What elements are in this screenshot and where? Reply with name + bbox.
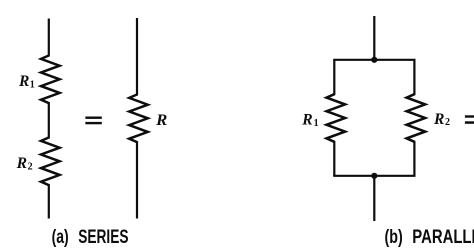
resistor R2 (series) — [41, 138, 60, 186]
resistor R2 (parallel) — [407, 94, 426, 142]
label R2 (parallel) — [433, 111, 450, 128]
wire parallel top lead — [373, 16, 375, 60]
svg-text:1: 1 — [30, 80, 35, 91]
node junction top — [371, 57, 377, 63]
label R1 (parallel) — [301, 111, 318, 129]
caption (a) SERIES — [52, 227, 129, 248]
svg-text:2: 2 — [28, 161, 33, 172]
svg-text:2: 2 — [445, 117, 450, 128]
resistor R1 (parallel) — [327, 94, 346, 142]
svg-text:SERIES: SERIES — [78, 227, 128, 248]
wire series bottom lead — [48, 184, 50, 219]
caption (b) PARALLEL — [385, 227, 474, 248]
svg-text:R: R — [301, 111, 313, 128]
label R2 (series) — [16, 155, 33, 173]
svg-text:PARALLEL: PARALLEL — [412, 227, 474, 248]
wire right branch lower — [413, 141, 415, 176]
wire left branch lower — [333, 141, 335, 176]
svg-text:R: R — [16, 155, 28, 172]
node junction bottom — [371, 173, 377, 179]
wire series top lead — [48, 19, 50, 57]
svg-text:(a): (a) — [52, 227, 69, 248]
wire left branch upper — [333, 60, 335, 95]
wire equivalent resistor top lead — [136, 18, 138, 96]
label R1 (series) — [18, 73, 35, 91]
wire parallel bottom lead — [373, 176, 375, 221]
svg-text:R: R — [155, 112, 168, 129]
equals sign (a) — [85, 117, 101, 125]
svg-text:(b): (b) — [385, 227, 403, 248]
wire bottom bus — [334, 175, 414, 177]
svg-text:R: R — [433, 111, 445, 128]
wire top bus — [334, 59, 414, 61]
wire between R1 and R2 — [48, 102, 50, 139]
svg-text:R: R — [18, 73, 30, 90]
wire equivalent resistor bottom lead — [136, 141, 138, 219]
equals sign (b) — [465, 115, 474, 124]
resistor R1 (series) — [41, 56, 60, 104]
svg-text:1: 1 — [314, 118, 319, 129]
resistor R (equivalent) — [129, 95, 148, 143]
wire right branch upper — [413, 60, 415, 95]
